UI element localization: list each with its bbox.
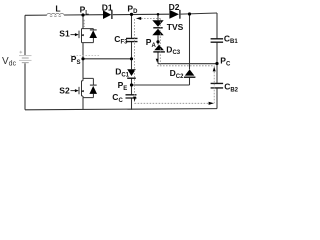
svg-text:D2: D2	[169, 2, 180, 12]
svg-text:TVS: TVS	[167, 22, 184, 32]
svg-text:S2: S2	[59, 85, 70, 95]
svg-text:L: L	[55, 4, 60, 14]
svg-text:S1: S1	[59, 29, 70, 39]
svg-text:D1: D1	[102, 3, 113, 13]
